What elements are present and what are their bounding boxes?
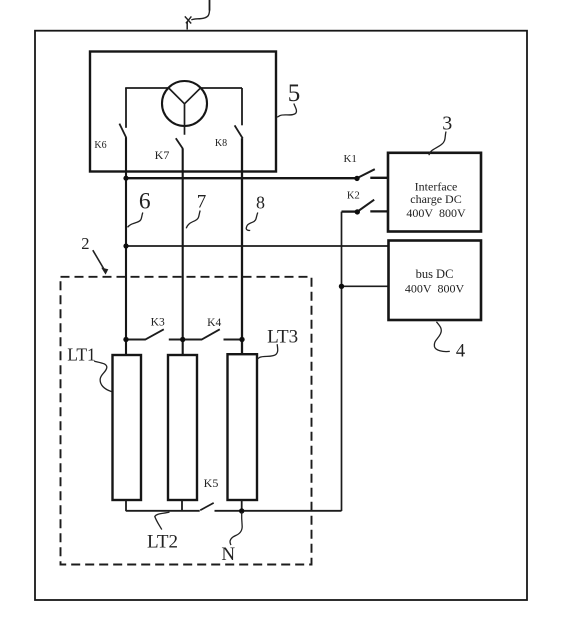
- svg-text:bus DC: bus DC: [416, 267, 454, 281]
- svg-text:5: 5: [288, 80, 301, 107]
- svg-text:3: 3: [442, 113, 452, 135]
- svg-text:charge DC: charge DC: [410, 192, 461, 206]
- svg-text:K2: K2: [347, 190, 360, 201]
- svg-text:N: N: [221, 544, 235, 565]
- svg-text:8: 8: [256, 193, 265, 213]
- svg-text:4: 4: [456, 342, 465, 362]
- svg-text:400V 800V: 400V 800V: [406, 206, 466, 220]
- svg-text:2: 2: [81, 234, 89, 253]
- svg-text:7: 7: [197, 192, 207, 213]
- svg-text:K6: K6: [94, 140, 106, 151]
- svg-text:400V 800V: 400V 800V: [405, 282, 465, 296]
- svg-text:K4: K4: [207, 317, 221, 329]
- svg-text:LT1: LT1: [67, 345, 96, 365]
- svg-text:K7: K7: [155, 148, 170, 162]
- svg-text:K1: K1: [343, 153, 356, 165]
- svg-text:K8: K8: [215, 138, 227, 149]
- svg-text:LT2: LT2: [147, 531, 178, 552]
- svg-text:K5: K5: [204, 476, 219, 490]
- svg-text:K3: K3: [151, 316, 165, 328]
- svg-text:LT3: LT3: [267, 326, 298, 347]
- svg-text:6: 6: [139, 188, 151, 214]
